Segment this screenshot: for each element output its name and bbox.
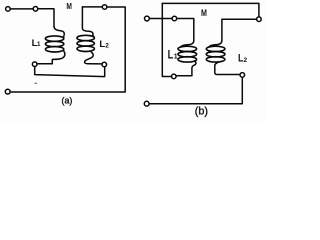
svg-text:(b): (b) bbox=[195, 106, 208, 118]
svg-text:2: 2 bbox=[244, 57, 248, 64]
svg-text:(a): (a) bbox=[62, 95, 73, 105]
svg-text:M: M bbox=[201, 7, 207, 18]
svg-text:2: 2 bbox=[105, 43, 109, 50]
svg-text:M: M bbox=[66, 1, 72, 11]
svg-text:1: 1 bbox=[174, 54, 178, 61]
svg-text:1: 1 bbox=[37, 41, 41, 48]
